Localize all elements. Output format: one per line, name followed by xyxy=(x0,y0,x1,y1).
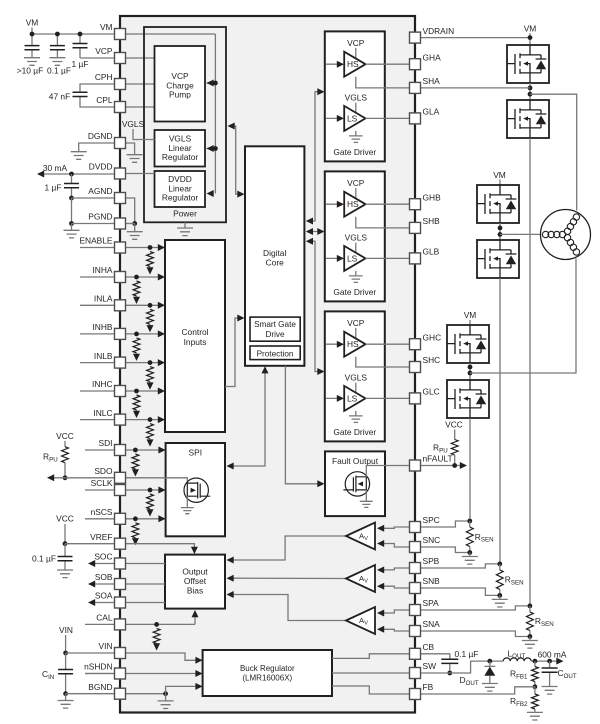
pin label SPC xyxy=(423,515,440,525)
wire VM phase A stem xyxy=(529,33,531,45)
wire VGLS stem GDC xyxy=(355,383,357,394)
pin GHB xyxy=(410,199,421,210)
block Smart Gate Drive xyxy=(250,317,300,341)
capacitor COUT xyxy=(549,661,551,686)
junction ENABLE pulldown xyxy=(148,245,153,250)
arrow into Gate Driver A xyxy=(317,88,324,95)
pin INHC xyxy=(115,386,126,397)
svg-text:SPI: SPI xyxy=(189,448,203,458)
pin SNC xyxy=(410,542,421,553)
resistor CAL pulldown xyxy=(153,628,160,643)
wire SPB to amp xyxy=(379,568,411,570)
arrow SPA into amp xyxy=(377,610,384,617)
ground RFB2 xyxy=(527,712,543,720)
pin GLA xyxy=(410,113,421,124)
value 1 uF xyxy=(72,59,89,69)
wire DigitalCore-FaultOutput xyxy=(285,366,323,484)
junction SDO pullup xyxy=(63,475,68,480)
pin label SHA xyxy=(423,76,441,86)
ground COUT xyxy=(542,687,558,695)
label RFB1 xyxy=(510,669,528,681)
arrow LS input GDC xyxy=(337,395,344,402)
label VCP GDB xyxy=(347,178,365,188)
pin nSHDN xyxy=(115,668,126,679)
block Fault Output xyxy=(325,451,385,516)
wire SPC to amp xyxy=(379,527,411,528)
pin GLC xyxy=(410,393,421,404)
wire VM phase C stem xyxy=(469,320,471,325)
wire VM internal xyxy=(125,33,215,35)
svg-text:Output: Output xyxy=(182,566,208,576)
svg-text:VCP: VCP xyxy=(95,46,113,56)
capacitor 1 uF VM-VCP xyxy=(80,34,115,58)
svg-text:VM: VM xyxy=(100,22,113,32)
wire PGND gnd stem xyxy=(71,224,73,231)
arrow into Fault Output xyxy=(317,480,324,487)
wire VGLS to regulator xyxy=(133,129,155,140)
svg-text:0.1 µF: 0.1 µF xyxy=(455,649,479,659)
wire GLB output xyxy=(366,257,416,259)
label VGLS GDC xyxy=(345,373,368,383)
arrow SCLK pulldown to gnd xyxy=(147,509,154,516)
pin nFAULT xyxy=(410,460,421,471)
arrow into DC from GDB xyxy=(306,228,313,235)
arrow into Gate Driver C xyxy=(317,368,324,375)
svg-text:nFAULT: nFAULT xyxy=(423,454,453,464)
net label VIN xyxy=(59,625,73,635)
wire VDRAIN xyxy=(420,37,530,39)
arrow INLA pulldown to gnd xyxy=(147,325,154,332)
svg-text:SPA: SPA xyxy=(423,598,440,608)
arrow SNA into amp xyxy=(377,626,384,633)
svg-text:SOB: SOB xyxy=(95,572,113,582)
transistor HS C xyxy=(447,325,489,363)
svg-text:Digital: Digital xyxy=(263,248,286,258)
arrow CAL pulldown to gnd xyxy=(153,643,160,650)
pin INLB xyxy=(115,357,126,368)
pin SPB xyxy=(410,563,421,574)
net label VM phase B xyxy=(493,170,506,180)
junction INHA pulldown xyxy=(134,275,139,280)
motor coil B xyxy=(542,231,565,237)
block Gate Driver B xyxy=(325,171,385,301)
svg-text:DVDD: DVDD xyxy=(89,162,113,172)
wire INLA internal xyxy=(125,304,164,306)
arrow BGND into Buck xyxy=(195,683,202,690)
svg-text:Inputs: Inputs xyxy=(184,337,207,347)
svg-text:GHC: GHC xyxy=(423,332,442,342)
label RSEN B xyxy=(505,575,524,587)
junction INLC pulldown xyxy=(148,417,153,422)
svg-text:VM: VM xyxy=(524,24,537,34)
pin VREF xyxy=(115,538,126,549)
net label VM xyxy=(26,18,39,28)
label COUT xyxy=(558,668,577,680)
junction VM a xyxy=(30,32,35,37)
ground DOUT xyxy=(482,684,498,692)
pin CB xyxy=(410,648,421,659)
wire VCC to VREF xyxy=(64,524,66,544)
pin label GHC xyxy=(423,332,442,342)
svg-text:Fault Output: Fault Output xyxy=(332,456,379,466)
pin VDRAIN xyxy=(410,32,421,43)
wire SOA internal xyxy=(125,602,165,604)
pin label VIN xyxy=(99,641,113,651)
arrow INLB pulldown to gnd xyxy=(147,382,154,389)
svg-text:Smart Gate: Smart Gate xyxy=(254,320,296,329)
wire BGND gnd stem internal xyxy=(165,694,167,701)
svg-text:SHA: SHA xyxy=(423,76,441,86)
svg-text:LS: LS xyxy=(347,113,358,123)
pin label SNA xyxy=(423,619,441,629)
wire SOB internal xyxy=(125,583,165,585)
wire LS gnd stem GDB xyxy=(355,271,357,276)
svg-text:VGLS: VGLS xyxy=(345,93,368,103)
resistor RSEN A xyxy=(529,606,531,637)
arrow into Digital Core from CI xyxy=(237,315,244,322)
svg-text:Buck Regulator: Buck Regulator xyxy=(240,664,295,673)
svg-text:SNB: SNB xyxy=(423,576,441,586)
wire SNB to amp xyxy=(379,586,411,588)
svg-text:INHB: INHB xyxy=(92,322,112,332)
svg-text:FB: FB xyxy=(423,682,434,692)
junction AGND xyxy=(69,196,74,201)
wire VCP stem GDC xyxy=(355,328,357,340)
wire RPU to SDO xyxy=(64,463,66,478)
label VCP GDC xyxy=(347,318,365,328)
arrow ampC into OOB xyxy=(227,557,234,564)
svg-text:SOA: SOA xyxy=(95,591,113,601)
pin SHB xyxy=(410,222,421,233)
pin label INHC xyxy=(92,379,112,389)
pin CAL xyxy=(115,619,126,630)
wire PGND xyxy=(72,223,116,225)
junction VDRAIN VM xyxy=(528,35,533,40)
wire SPC external xyxy=(420,521,470,527)
arrow INHC pulldown to gnd xyxy=(133,411,140,418)
block DVDD Linear Regulator xyxy=(155,171,206,207)
wire DGND internal xyxy=(125,143,135,155)
svg-text:INLC: INLC xyxy=(93,408,112,418)
pin label INHA xyxy=(92,265,112,275)
svg-text:LS: LS xyxy=(347,253,358,263)
wire VCP stem GDA xyxy=(355,48,357,60)
svg-text:0.1 µF: 0.1 µF xyxy=(47,66,71,76)
svg-text:SNA: SNA xyxy=(423,619,441,629)
pin INHA xyxy=(115,272,126,283)
svg-text:SPC: SPC xyxy=(423,515,440,525)
arrow into SPI xyxy=(227,463,234,470)
arrow into Digital Core from power xyxy=(237,191,244,198)
wire GLC output xyxy=(366,397,416,399)
wire VCC stem xyxy=(64,441,66,447)
pin VM xyxy=(115,29,126,40)
wire INHA stub xyxy=(80,276,115,278)
svg-text:INHA: INHA xyxy=(92,265,112,275)
resistor INHA pulldown xyxy=(133,281,140,296)
svg-text:VM: VM xyxy=(493,170,506,180)
svg-text:CAL: CAL xyxy=(96,613,113,623)
junction PGND internal xyxy=(132,221,137,226)
wire ENABLE pulldown stem xyxy=(149,267,151,270)
pin CPH xyxy=(115,79,126,90)
svg-text:GLB: GLB xyxy=(423,247,440,257)
label Fault Output xyxy=(332,456,379,466)
wire INLA stub xyxy=(80,304,115,306)
junction motor B tap xyxy=(498,232,503,237)
label 30 mA xyxy=(43,163,68,173)
label VGLS GDB xyxy=(345,233,368,243)
wire RSEN B gnd stem xyxy=(499,595,501,599)
net label VM phase C xyxy=(464,310,477,320)
label 600 mA xyxy=(538,649,567,659)
arrow nSCS pulldown to gnd xyxy=(132,538,139,545)
wire CPH internal xyxy=(125,83,155,85)
svg-text:VIN: VIN xyxy=(59,625,73,635)
junction SHB xyxy=(498,226,503,231)
label VGLS GDA xyxy=(345,93,368,103)
svg-text:Pump: Pump xyxy=(169,90,191,100)
svg-text:SPB: SPB xyxy=(423,556,440,566)
driver HS A xyxy=(344,52,365,77)
pin CPL xyxy=(115,102,126,113)
arrow into Protection xyxy=(262,366,269,373)
svg-text:1 µF: 1 µF xyxy=(45,183,62,193)
svg-text:INHC: INHC xyxy=(92,379,112,389)
wire SDO internal xyxy=(125,478,187,483)
wire PGND internal xyxy=(125,223,135,225)
junction CB-SW xyxy=(447,671,452,676)
wire VGLS stem GDA xyxy=(355,103,357,114)
capacitor 0.1 uF VREF xyxy=(64,544,66,570)
arrow SDI into SPI xyxy=(158,447,165,454)
junction RSEN B bottom xyxy=(497,593,502,598)
capacitor 47 nF flying xyxy=(80,84,115,107)
resistor RFB1 xyxy=(534,661,536,687)
wire charge-pump feedback xyxy=(214,34,216,194)
svg-text:AGND: AGND xyxy=(88,186,112,196)
pin INHB xyxy=(115,328,126,339)
pin GLB xyxy=(410,253,421,264)
ground RSEN B xyxy=(492,599,508,607)
wire amp C output xyxy=(228,536,346,560)
pin label GLA xyxy=(423,107,440,117)
pin label GLC xyxy=(423,387,440,397)
junction CAL pulldown xyxy=(154,622,159,627)
resistor INHC pulldown xyxy=(133,395,140,410)
svg-text:Regulator: Regulator xyxy=(162,152,199,162)
pin label INLC xyxy=(93,408,112,418)
wire nSCS stub xyxy=(85,518,115,520)
wire BGND xyxy=(66,693,115,695)
transistor LS A xyxy=(507,100,549,138)
transistor HS B xyxy=(477,185,519,223)
svg-text:SOC: SOC xyxy=(94,552,112,562)
pin label SDO xyxy=(94,466,113,476)
ground VM bulk cap xyxy=(24,58,40,66)
value 0.1 uF xyxy=(47,66,71,76)
wire CPL internal xyxy=(125,106,155,108)
svg-text:SHC: SHC xyxy=(423,355,441,365)
pin BGND xyxy=(115,688,126,699)
resistor INLA pulldown xyxy=(147,309,154,324)
resistor RSEN B xyxy=(499,564,501,596)
block VCP Charge Pump xyxy=(155,46,206,122)
ground Gate Driver A xyxy=(349,136,363,142)
arrow SOC out xyxy=(88,560,95,567)
pin label SHC xyxy=(423,355,441,365)
arrow HS input GDC xyxy=(337,341,344,348)
wire CAL stub xyxy=(85,623,115,625)
wire VCP stem GDB xyxy=(355,188,357,200)
wire CAL internal xyxy=(125,623,195,625)
pin SW xyxy=(410,668,421,679)
svg-text:Bias: Bias xyxy=(187,585,203,595)
pin label INLA xyxy=(94,294,113,304)
svg-text:VM: VM xyxy=(464,310,477,320)
wire GHA output xyxy=(366,63,416,65)
wire SDO out xyxy=(49,477,116,479)
motor coil C xyxy=(563,233,581,256)
junction fb VCP xyxy=(213,81,218,86)
wire LS input GDA xyxy=(326,117,343,119)
label RFB2 xyxy=(510,696,528,708)
ground DGND external xyxy=(71,152,87,160)
pin SPC xyxy=(410,522,421,533)
junction INLA pulldown xyxy=(148,303,153,308)
svg-text:SHB: SHB xyxy=(423,216,441,226)
svg-text:Core: Core xyxy=(266,257,284,267)
pin label FB xyxy=(423,682,434,692)
wire BGND to Buck xyxy=(166,686,201,693)
arrow CAL into OOB xyxy=(192,610,199,617)
junction VIN xyxy=(63,651,68,656)
block Control Inputs xyxy=(165,240,225,432)
transistor HS A xyxy=(507,45,549,83)
svg-text:Gate Driver: Gate Driver xyxy=(333,287,376,297)
block SPI xyxy=(166,443,225,536)
label RSEN A xyxy=(535,616,554,628)
wire INHA internal xyxy=(125,276,164,278)
wire nFAULT drain xyxy=(366,466,415,477)
arrow SNB into amp xyxy=(377,583,384,590)
wire SPB external xyxy=(420,564,500,568)
junction SDI pulldown xyxy=(133,448,138,453)
wire amp A output xyxy=(228,595,346,621)
block Protection xyxy=(250,346,300,360)
pin label CPH xyxy=(95,72,113,82)
pin label CB xyxy=(423,642,435,652)
wire FB external xyxy=(420,687,535,694)
wire SCLK stub xyxy=(85,489,115,491)
wire nFAULT fet source xyxy=(365,490,367,501)
svg-text:INLA: INLA xyxy=(94,294,113,304)
svg-text:GLC: GLC xyxy=(423,387,440,397)
wire SNC to amp xyxy=(379,544,411,548)
wire SPA to amp xyxy=(379,610,411,613)
arrow into DVDD block xyxy=(207,190,214,197)
arrow ENABLE into Control Inputs xyxy=(158,244,165,251)
wire LS A source to RSEN A xyxy=(529,138,531,606)
pin label GHB xyxy=(423,192,442,202)
ground BGND internal xyxy=(158,701,174,709)
capacitor 1 uF DVDD xyxy=(71,174,73,198)
arrow INHA pulldown to gnd xyxy=(133,297,140,304)
arrow into VCP block xyxy=(207,80,214,87)
pin ENABLE xyxy=(115,242,126,253)
label SPI xyxy=(189,448,203,458)
arrow into DC from GDA bus xyxy=(306,218,313,225)
net label VCC VREF xyxy=(56,514,74,524)
pin VCP xyxy=(115,53,126,64)
pin label SOC xyxy=(94,552,112,562)
wire ControlInputs-DigitalCore xyxy=(225,318,243,387)
wire SOC out xyxy=(90,563,116,565)
resistor SCLK pulldown xyxy=(147,494,154,509)
pin GHA xyxy=(410,59,421,70)
pin GHC xyxy=(410,339,421,350)
net label VCC nFAULT xyxy=(445,420,463,430)
pin label BGND xyxy=(88,682,112,692)
block Gate Driver A xyxy=(325,31,385,161)
resistor nSCS pulldown xyxy=(132,523,139,538)
wire SW to LOUT xyxy=(420,661,503,673)
pin SPA xyxy=(410,605,421,616)
inductor LOUT xyxy=(503,658,531,661)
svg-text:30 mA: 30 mA xyxy=(43,163,68,173)
wire BGND gnd stem xyxy=(65,694,67,701)
svg-text:VM: VM xyxy=(26,18,39,28)
wire SHA to pin xyxy=(420,87,530,89)
arrow INHB pulldown to gnd xyxy=(133,354,140,361)
pin label SOB xyxy=(95,572,113,582)
svg-text:CB: CB xyxy=(423,642,435,652)
svg-text:Gate Driver: Gate Driver xyxy=(333,427,376,437)
ground RSEN C xyxy=(462,557,478,565)
svg-text:GLA: GLA xyxy=(423,107,440,117)
arrow SDI pulldown to gnd xyxy=(132,469,139,476)
wire INLC stub xyxy=(80,419,115,421)
motor coil A xyxy=(563,213,581,236)
pin label VREF xyxy=(90,532,112,542)
IC body DRV8353R xyxy=(120,16,415,713)
svg-text:0.1 µF: 0.1 µF xyxy=(32,554,56,564)
ground Gate Driver C xyxy=(349,416,363,422)
wire SOC internal xyxy=(125,563,165,565)
svg-text:600 mA: 600 mA xyxy=(538,649,567,659)
arrow ampA into OOB xyxy=(227,591,234,598)
svg-text:Gate Driver: Gate Driver xyxy=(333,147,376,157)
wire CAL up to OOB xyxy=(194,614,196,625)
wire SOB out xyxy=(90,583,116,585)
resistor RPU nFAULT xyxy=(451,440,458,456)
svg-text:SW: SW xyxy=(423,661,437,671)
svg-text:SNC: SNC xyxy=(423,535,441,545)
wire SNA external xyxy=(420,631,530,637)
arrow INLC into Control Inputs xyxy=(158,416,165,423)
ground BGND external xyxy=(58,701,74,709)
pin label INLB xyxy=(94,351,113,361)
pin SNA xyxy=(410,626,421,637)
value >10 uF xyxy=(17,66,43,76)
wire BGND internal xyxy=(125,693,166,695)
wire SHB node xyxy=(499,223,501,240)
wire VCP fb tap xyxy=(207,82,216,84)
ground RSEN A xyxy=(522,641,538,649)
label CIN xyxy=(42,669,54,681)
junction RSEN C top xyxy=(467,519,472,524)
pin SDO xyxy=(115,472,126,483)
